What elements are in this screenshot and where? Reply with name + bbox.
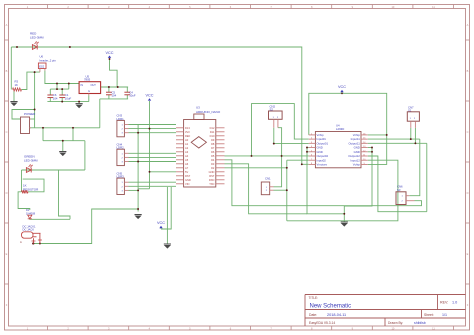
svg-text:Vchip: Vchip bbox=[353, 163, 360, 167]
wire: CN2 loop D6 to L293D Input01 bbox=[252, 104, 309, 156]
svg-text:D12: D12 bbox=[210, 126, 215, 130]
svg-text:3V3: 3V3 bbox=[185, 130, 190, 134]
svg-text:A: A bbox=[6, 23, 8, 27]
svg-text:5V: 5V bbox=[185, 170, 188, 174]
wire: L293D Output12 loop bbox=[368, 156, 427, 212]
svg-text:3: 3 bbox=[122, 162, 124, 164]
capacitor C5 bbox=[106, 90, 117, 97]
diode D1 bbox=[26, 208, 36, 219]
ground: bottom of gnd bus bbox=[135, 215, 142, 220]
wire: L293D Output11 row to CN7 pin2 bbox=[368, 128, 427, 212]
svg-text:3: 3 bbox=[122, 133, 124, 135]
wire: nano VIN to VCC4 bbox=[161, 187, 171, 229]
title block bbox=[305, 295, 466, 327]
wire: header node down to switch node bbox=[34, 72, 36, 119]
svg-text:GND: GND bbox=[209, 170, 215, 174]
ground: under L293D bbox=[341, 222, 348, 227]
resistor R3 bbox=[13, 80, 22, 92]
wire: top power rail to L293D Vmotors bbox=[70, 47, 309, 164]
wire: CN2 left pin down bbox=[273, 128, 275, 144]
svg-text:1N4008: 1N4008 bbox=[26, 211, 36, 215]
wire: header right pin to 7805 IN row bbox=[45, 71, 79, 84]
svg-text:2: 2 bbox=[122, 157, 124, 159]
wire: D4 loop bottom rail bbox=[225, 160, 422, 206]
svg-text:D10: D10 bbox=[210, 134, 215, 138]
capacitor C6 bbox=[47, 93, 58, 100]
svg-text:S3: S3 bbox=[397, 188, 401, 192]
wire: 1K resistor loop bbox=[22, 170, 45, 192]
svg-text:B: B bbox=[467, 69, 469, 73]
svg-text:1: 1 bbox=[273, 117, 275, 119]
svg-text:D8: D8 bbox=[211, 142, 215, 146]
svg-text:1: 1 bbox=[122, 182, 124, 184]
svg-text:F: F bbox=[6, 303, 8, 307]
svg-text:D9: D9 bbox=[211, 138, 215, 142]
svg-text:G: G bbox=[88, 90, 90, 93]
connector CN5 bbox=[117, 171, 129, 194]
svg-text:A7: A7 bbox=[185, 166, 189, 170]
ground: LED2 row bbox=[59, 152, 66, 157]
svg-text:header_2 pin: header_2 pin bbox=[40, 58, 57, 62]
svg-text:D4: D4 bbox=[211, 158, 215, 162]
svg-text:C: C bbox=[467, 130, 469, 134]
svg-text:A6: A6 bbox=[185, 162, 189, 166]
wire: switch output row bbox=[35, 99, 100, 128]
svg-text:3: 3 bbox=[122, 190, 124, 192]
svg-text:ARDUINO_NANO: ARDUINO_NANO bbox=[196, 110, 221, 114]
svg-text:L293D: L293D bbox=[336, 127, 344, 131]
svg-text:B: B bbox=[6, 69, 8, 73]
svg-text:D13: D13 bbox=[185, 126, 190, 130]
connector CN3 bbox=[117, 114, 129, 137]
ground: under nano bbox=[164, 244, 171, 249]
connector DC JACK1 bbox=[20, 224, 42, 243]
svg-text:E: E bbox=[467, 252, 469, 256]
svg-text:1K: 1K bbox=[15, 83, 19, 87]
svg-text:D: D bbox=[467, 191, 469, 195]
connector CN6 bbox=[396, 185, 415, 205]
ground: under R3 bbox=[10, 90, 17, 107]
svg-text:TITLE:: TITLE: bbox=[309, 296, 319, 300]
capacitor C4 bbox=[124, 90, 135, 97]
7805 output caps bus bbox=[100, 87, 128, 99]
ground stem under LED2 row bbox=[62, 141, 64, 152]
wires: CN3 to nano bbox=[129, 125, 177, 133]
wire: D1 bottom row bbox=[30, 218, 70, 221]
svg-text:E: E bbox=[6, 252, 8, 256]
svg-text:2: 2 bbox=[277, 117, 279, 119]
svg-text:C: C bbox=[6, 130, 8, 134]
svg-text:2018-04-11: 2018-04-11 bbox=[327, 313, 346, 317]
svg-text:VCC: VCC bbox=[105, 51, 113, 55]
VCC netflag 4 bbox=[157, 221, 165, 229]
wire: GND vertical bus left of nano bbox=[137, 125, 139, 212]
wires: CN5 to nano bbox=[129, 182, 177, 190]
svg-text:A: A bbox=[20, 240, 22, 244]
regulator U5 7805 bbox=[79, 74, 101, 95]
svg-text:RST: RST bbox=[209, 174, 215, 178]
wire: green LED row bbox=[22, 141, 85, 170]
svg-text:A: A bbox=[467, 23, 469, 27]
capacitor C1 bbox=[59, 93, 71, 100]
wire: D2 loop to CN6 pin1 bbox=[225, 167, 287, 169]
svg-text:Vmotors: Vmotors bbox=[317, 163, 328, 167]
svg-text:D6: D6 bbox=[211, 150, 215, 154]
svg-text:OUT: OUT bbox=[91, 84, 97, 87]
svg-text:1: 1 bbox=[410, 118, 412, 120]
svg-text:VCC: VCC bbox=[338, 85, 346, 89]
svg-text:A0: A0 bbox=[185, 138, 189, 142]
resistor R1 1K bbox=[22, 184, 40, 194]
VCC netflag 2 bbox=[145, 94, 153, 101]
header U6 bbox=[38, 55, 56, 73]
wire: VCC2 vertical 5V bus bbox=[138, 101, 149, 189]
svg-text:F: F bbox=[467, 303, 469, 307]
svg-text:shibilsb: shibilsb bbox=[414, 321, 426, 325]
svg-text:104: 104 bbox=[53, 96, 58, 100]
svg-text:D: D bbox=[6, 191, 8, 195]
svg-text:LED-3MM: LED-3MM bbox=[24, 158, 38, 162]
switch POWER bbox=[21, 112, 37, 133]
svg-text:1.0: 1.0 bbox=[452, 301, 457, 305]
svg-text:Sheet:: Sheet: bbox=[424, 313, 434, 317]
svg-text:VCC: VCC bbox=[157, 221, 165, 225]
svg-text:A4: A4 bbox=[185, 154, 189, 158]
svg-text:A3: A3 bbox=[185, 150, 189, 154]
ground: under 7805 bbox=[76, 104, 83, 109]
svg-text:RXD: RXD bbox=[209, 178, 215, 182]
wire: DC jack bottom row up to gnd bus bbox=[33, 209, 138, 244]
wire: CN1 pin2 loop to L293D Input12 bbox=[274, 160, 398, 221]
VCC netflag 1 bbox=[105, 51, 113, 58]
svg-text:VIN: VIN bbox=[185, 182, 189, 186]
driver U4 L293D bbox=[309, 124, 368, 168]
svg-text:LED-3MM: LED-3MM bbox=[30, 35, 44, 39]
LED D2 red bbox=[30, 32, 44, 50]
wire: Output01 row from CN2 pin1 bbox=[274, 143, 309, 145]
svg-text:CN1: CN1 bbox=[265, 177, 271, 181]
wire: node row to POWER switch bbox=[12, 110, 35, 120]
svg-text:2: 2 bbox=[402, 201, 404, 203]
svg-text:10uF: 10uF bbox=[129, 94, 136, 98]
wire: Input02 from CN1 loop vertical bbox=[287, 159, 309, 161]
svg-text:D3: D3 bbox=[211, 162, 215, 166]
7805 input caps bus bbox=[47, 84, 88, 104]
svg-text:VCC: VCC bbox=[145, 94, 153, 98]
LED D3 green bbox=[24, 155, 38, 173]
svg-text:1: 1 bbox=[122, 125, 124, 127]
svg-text:REF: REF bbox=[185, 134, 191, 138]
svg-text:104: 104 bbox=[112, 94, 117, 98]
svg-text:10uF: 10uF bbox=[65, 96, 72, 100]
svg-text:TXD: TXD bbox=[209, 182, 214, 186]
svg-text:1: 1 bbox=[122, 153, 124, 155]
wire: CN2 right pin down to CN1 bbox=[274, 128, 282, 187]
svg-text:POWER: POWER bbox=[24, 112, 36, 116]
svg-text:1: 1 bbox=[266, 187, 268, 189]
svg-text:D5: D5 bbox=[211, 154, 215, 158]
VCC netflag 3 bbox=[338, 85, 346, 93]
svg-text:2: 2 bbox=[414, 118, 416, 120]
wire: L293D GND left pins to ground bus bbox=[307, 148, 344, 223]
connector CN2 bbox=[269, 104, 283, 127]
connector CN4 bbox=[117, 142, 129, 165]
svg-text:2: 2 bbox=[122, 186, 124, 188]
svg-text:DC JACK: DC JACK bbox=[23, 228, 35, 232]
svg-text:REV:: REV: bbox=[440, 301, 448, 305]
svg-text:EasyEDA V5.3.14: EasyEDA V5.3.14 bbox=[309, 321, 335, 325]
wire: 5V pin to VCC bus bbox=[150, 171, 177, 173]
svg-text:A1: A1 bbox=[185, 142, 189, 146]
wire: nano GND pin to ground bbox=[166, 187, 168, 244]
wires: CN4 to nano bbox=[129, 153, 177, 161]
svg-text:New Schematic: New Schematic bbox=[310, 304, 352, 310]
mcu U3 Arduino Nano bbox=[176, 106, 225, 187]
svg-text:D11: D11 bbox=[210, 130, 215, 134]
svg-text:EG2: EG2 bbox=[39, 65, 45, 68]
svg-text:1: 1 bbox=[402, 196, 404, 198]
svg-text:2: 2 bbox=[266, 190, 268, 192]
svg-text:2: 2 bbox=[122, 129, 124, 131]
wire: mid-left loop bbox=[59, 170, 71, 219]
wire: L293D GND right pins to ground bus bbox=[344, 148, 372, 214]
wire: VCC1 drop to output row bbox=[110, 59, 118, 87]
svg-text:A5: A5 bbox=[185, 158, 189, 162]
svg-text:1/1: 1/1 bbox=[442, 313, 447, 317]
wire: R3 to header pin bbox=[22, 72, 40, 89]
svg-text:Date:: Date: bbox=[309, 313, 317, 317]
svg-text:Drawn By:: Drawn By: bbox=[388, 321, 403, 325]
wire: branch down to green-LED row bbox=[43, 128, 73, 141]
connector CN1 bbox=[261, 177, 273, 195]
svg-text:D2: D2 bbox=[211, 166, 215, 170]
connector CN7 bbox=[407, 105, 419, 128]
wire: battery/LED top row bbox=[11, 46, 70, 48]
wire: D3 to gnd bus rail bbox=[225, 164, 308, 214]
wire: LED row down to R3 bbox=[10, 47, 12, 90]
wire: LED2 upper row bbox=[43, 140, 85, 142]
wire: 1K to diode D1 bbox=[18, 192, 30, 210]
svg-text:D7: D7 bbox=[211, 146, 215, 150]
wire: L293D Input11 row to CN7 pin1 and CN6 pin1 bbox=[368, 128, 420, 196]
wire: switch pins bbox=[30, 119, 35, 128]
svg-text:A2: A2 bbox=[185, 146, 189, 150]
svg-text:IN: IN bbox=[81, 84, 84, 87]
wire: D5 to L293D Output02 bbox=[225, 155, 309, 157]
svg-text:GND: GND bbox=[185, 178, 191, 182]
svg-text:7805: 7805 bbox=[84, 78, 91, 82]
wire: VCC3 rail to L293D Vchip pins bbox=[309, 93, 387, 164]
svg-text:RST: RST bbox=[185, 174, 191, 178]
